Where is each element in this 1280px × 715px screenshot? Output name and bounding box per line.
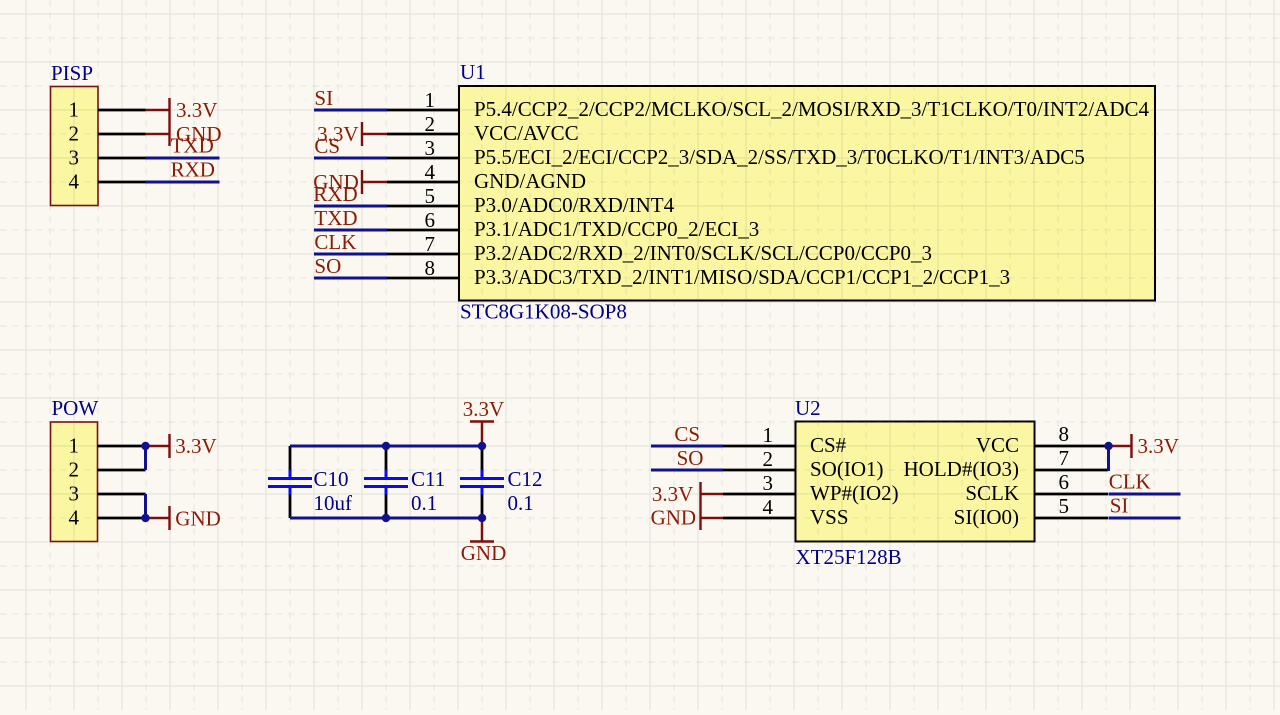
svg-text:SO(IO1): SO(IO1) (810, 457, 884, 481)
svg-text:P3.3/ADC3/TXD_2/INT1/MISO/SDA/: P3.3/ADC3/TXD_2/INT1/MISO/SDA/CCP1/CCP1_… (474, 265, 1010, 289)
svg-text:8: 8 (425, 256, 436, 280)
svg-text:0.1: 0.1 (411, 491, 437, 515)
svg-text:GND: GND (651, 506, 697, 530)
svg-text:4: 4 (69, 170, 80, 194)
svg-text:7: 7 (425, 232, 436, 256)
svg-text:4: 4 (763, 495, 774, 519)
svg-text:7: 7 (1059, 446, 1070, 470)
svg-text:6: 6 (1059, 470, 1070, 494)
svg-text:XT25F128B: XT25F128B (796, 545, 902, 569)
svg-text:8: 8 (1059, 422, 1070, 446)
svg-text:P3.0/ADC0/RXD/INT4: P3.0/ADC0/RXD/INT4 (474, 193, 675, 217)
svg-text:P3.1/ADC1/TXD/CCP0_2/ECI_3: P3.1/ADC1/TXD/CCP0_2/ECI_3 (474, 217, 759, 241)
svg-text:RXD: RXD (171, 158, 215, 182)
svg-text:1: 1 (425, 88, 436, 112)
svg-text:SO: SO (677, 446, 704, 470)
svg-text:3.3V: 3.3V (176, 98, 217, 122)
svg-text:1: 1 (763, 423, 774, 447)
svg-text:3: 3 (69, 482, 80, 506)
svg-text:SI: SI (1110, 494, 1129, 518)
svg-text:6: 6 (425, 208, 436, 232)
svg-text:VCC/AVCC: VCC/AVCC (474, 121, 579, 145)
svg-text:P5.5/ECI_2/ECI/CCP2_3/SDA_2/SS: P5.5/ECI_2/ECI/CCP2_3/SDA_2/SS/TXD_3/T0C… (474, 145, 1085, 169)
svg-text:3: 3 (763, 471, 774, 495)
svg-text:VSS: VSS (810, 505, 849, 529)
svg-text:3.3V: 3.3V (652, 482, 693, 506)
svg-text:TXD: TXD (314, 206, 357, 230)
svg-text:0.1: 0.1 (508, 491, 534, 515)
svg-text:3: 3 (425, 136, 436, 160)
svg-text:SO: SO (314, 254, 341, 278)
svg-text:4: 4 (69, 506, 80, 530)
svg-text:CLK: CLK (314, 230, 356, 254)
svg-text:5: 5 (425, 184, 436, 208)
svg-text:2: 2 (69, 458, 80, 482)
svg-text:10uf: 10uf (314, 491, 353, 515)
svg-text:3.3V: 3.3V (1138, 434, 1179, 458)
svg-text:GND: GND (176, 122, 222, 146)
svg-text:WP#(IO2): WP#(IO2) (810, 481, 899, 505)
svg-text:1: 1 (69, 434, 80, 458)
svg-text:3: 3 (69, 146, 80, 170)
svg-text:5: 5 (1059, 494, 1070, 518)
svg-text:2: 2 (425, 112, 436, 136)
svg-text:P5.4/CCP2_2/CCP2/MCLKO/SCL_2/M: P5.4/CCP2_2/CCP2/MCLKO/SCL_2/MOSI/RXD_3/… (474, 97, 1150, 121)
svg-text:2: 2 (763, 447, 774, 471)
svg-text:SI(IO0): SI(IO0) (954, 505, 1019, 529)
svg-text:3.3V: 3.3V (175, 434, 216, 458)
svg-text:C12: C12 (508, 467, 543, 491)
svg-text:3.3V: 3.3V (463, 397, 504, 421)
svg-text:HOLD#(IO3): HOLD#(IO3) (904, 457, 1019, 481)
svg-text:GND: GND (461, 541, 507, 565)
svg-text:2: 2 (69, 122, 80, 146)
svg-text:C10: C10 (314, 467, 349, 491)
svg-text:1: 1 (69, 98, 80, 122)
svg-text:P3.2/ADC2/RXD_2/INT0/SCLK/SCL/: P3.2/ADC2/RXD_2/INT0/SCLK/SCL/CCP0/CCP0_… (474, 241, 932, 265)
svg-text:4: 4 (425, 160, 436, 184)
svg-text:VCC: VCC (976, 433, 1019, 457)
svg-text:GND/AGND: GND/AGND (474, 169, 586, 193)
svg-text:CS: CS (674, 422, 700, 446)
svg-text:CS#: CS# (810, 433, 847, 457)
svg-text:CLK: CLK (1109, 470, 1151, 494)
svg-text:U2: U2 (795, 396, 821, 420)
svg-text:U1: U1 (460, 60, 486, 84)
svg-text:STC8G1K08-SOP8: STC8G1K08-SOP8 (460, 300, 627, 324)
svg-text:C11: C11 (411, 467, 445, 491)
svg-text:GND: GND (313, 170, 359, 194)
svg-text:POW: POW (52, 396, 99, 420)
svg-text:PISP: PISP (51, 61, 93, 85)
svg-text:SI: SI (314, 86, 333, 110)
svg-text:3.3V: 3.3V (317, 122, 358, 146)
svg-text:SCLK: SCLK (965, 481, 1019, 505)
svg-text:GND: GND (175, 507, 221, 531)
